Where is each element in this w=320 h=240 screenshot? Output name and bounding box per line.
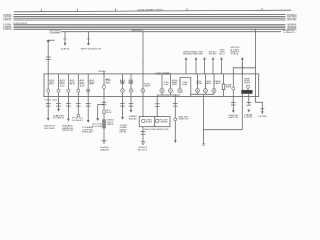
wire inside box to lamp L3 [179, 80, 181, 89]
wire pin 1 to box edge [47, 92, 49, 97]
junction dot pin 5 [87, 90, 89, 92]
wire inside box to pin 3 [67, 74, 69, 89]
svg-text:UNIT: UNIT [244, 83, 250, 85]
svg-text:RELAY: RELAY [120, 131, 128, 134]
wire col 48 below box [47, 97, 49, 119]
svg-text:CIRCUIT: CIRCUIT [107, 122, 114, 124]
svg-text:LIGHTS: LIGHTS [53, 118, 66, 120]
svg-text:SWITCH: SWITCH [178, 119, 189, 121]
right lamps common wire [191, 93, 214, 95]
arrow head col 97 [96, 118, 99, 121]
incoming arrow head A5 [220, 57, 223, 61]
bulb B1 symbol [121, 89, 125, 93]
arrow head col 262 [261, 111, 264, 114]
svg-text:VEHICLE SPEED SENSOR (VSS): VEHICLE SPEED SENSOR (VSS) [144, 129, 169, 131]
vss sensor circle 2 [156, 119, 159, 122]
wire inside box to pin 1 [47, 74, 49, 89]
inline connector on col 104 [102, 102, 107, 105]
svg-text:YEL/RED GRN: YEL/RED GRN [283, 30, 296, 32]
inline connector on col 157 [155, 104, 160, 107]
tick mark 1 on top rule [40, 9, 42, 11]
wire from arrow A6 down to gauge box [241, 61, 243, 74]
wire col 65 down [64, 32, 66, 43]
wire pin 5 to box edge [87, 92, 89, 97]
junction dot wire I / col 65 [64, 31, 65, 32]
lamp R2 symbol [204, 89, 208, 93]
inline connector C1 on col 48 [46, 57, 51, 60]
wire inside box to resistor R1 [223, 74, 225, 84]
wire col 143 from bus into gauge box [142, 32, 144, 74]
incoming arrow head A2 [195, 57, 198, 61]
wire resistor R2 to ground [103, 128, 105, 140]
pin 3 circle [67, 89, 70, 92]
bus wire F (group 2) [14, 25, 286, 27]
display module (dark) [241, 90, 252, 94]
inline connector on col 68 [66, 104, 71, 107]
arrow head col 68 [67, 119, 70, 122]
svg-text:BEAT: BEAT [243, 91, 252, 94]
wire inside box to gauge G1 [142, 74, 144, 89]
wire inside box to lamp R1 [197, 74, 199, 89]
wire col 190 inside box [190, 78, 192, 97]
wire from arrow A1 down to gauge box [185, 61, 187, 74]
inline connector on col 48 [46, 104, 51, 107]
wire from arrow A2 down to gauge box [195, 61, 197, 74]
resistor R2 body [103, 120, 106, 128]
wire drop col 157 in box [156, 95, 158, 97]
svg-text:SAFETY INDICATOR UNIT: SAFETY INDICATOR UNIT [81, 47, 103, 50]
tick mark 5 on top rule [261, 8, 263, 10]
wire col 248 to display [247, 88, 249, 90]
svg-text:DIMMING: DIMMING [107, 120, 115, 122]
wire col 233 from feed into box [232, 67, 234, 87]
wire from arrow A5 down to gauge box [221, 61, 223, 74]
svg-text:GAUGE ASSEMBLY: GAUGE ASSEMBLY [156, 71, 171, 75]
svg-text:SWITCH: SWITCH [228, 117, 239, 119]
svg-text:10 GRN/ORN: 10 GRN/ORN [3, 29, 12, 31]
wire inside box to bulb B2 [130, 74, 132, 89]
svg-text:LIGHT: LIGHT [72, 120, 83, 122]
wire lamp R2 bottom stub [205, 93, 207, 95]
junction dot col 190 common [190, 94, 191, 95]
arrow head col 88 [87, 43, 90, 46]
wire col 58 below box [58, 97, 60, 109]
junction dot rail [203, 129, 204, 130]
wire pin col 233 down [232, 90, 234, 97]
inline connector on col 233 [231, 102, 236, 105]
arrow head col 122 [121, 117, 124, 120]
lamp common wire [157, 94, 180, 96]
bus wire H (group 2) [14, 28, 286, 30]
wire inside box to lamp L2 [170, 74, 172, 88]
svg-text:ILL: ILL [106, 110, 111, 112]
svg-text:12: 12 [60, 85, 65, 87]
pin 5 circle [87, 89, 90, 92]
wire from arrow A3 down to gauge box [204, 61, 206, 74]
bulb col 104 [103, 111, 106, 114]
svg-text:18 WHT/RED: 18 WHT/RED [3, 18, 12, 20]
bus wire G (group 2) [14, 27, 286, 29]
pin circle col 248 [247, 85, 250, 88]
svg-text:WHT/RED: WHT/RED [287, 18, 298, 20]
wire pin6 below box [103, 97, 105, 105]
wire corner col 255 to 262 [256, 97, 263, 112]
svg-text:WHT: WHT [49, 82, 54, 84]
tick mark 3 on top rule [115, 9, 117, 11]
svg-text:ILLUM: ILLUM [92, 126, 103, 128]
incoming arrow head A4 [212, 57, 215, 61]
svg-text:WHT: WHT [89, 84, 94, 86]
junction dot wire I / col 88 [88, 31, 89, 32]
wire col 175 below box [174, 97, 176, 118]
junction dot wire I / col 143 [142, 31, 143, 32]
wire inside box to pin 6 [103, 72, 105, 85]
bulb B2 symbol [129, 89, 133, 93]
pin 4 circle [77, 89, 80, 92]
horizontal feed wire y67 [233, 67, 255, 69]
inline connector below vss box [141, 132, 146, 135]
svg-text:RES: RES [107, 124, 114, 126]
wire col 157 below box [156, 97, 158, 117]
svg-text:WHT: WHT [60, 84, 65, 86]
svg-text:C550 C551: C550 C551 [44, 100, 59, 102]
wire lamp L1 bottom stub [161, 93, 163, 95]
arrow head col 131 [130, 110, 133, 113]
svg-text:RELAY: RELAY [129, 117, 138, 120]
svg-text:SWITCH: SWITCH [62, 130, 74, 132]
wire col 104 down [103, 104, 105, 110]
single tick connector on col 88 [87, 38, 91, 40]
svg-text:BULB: BULB [106, 112, 111, 114]
wire drop col 175 in box [174, 95, 176, 97]
arrow head col 248 [247, 110, 250, 113]
svg-text:GAUGE ASSEMBLY (CONT’D): GAUGE ASSEMBLY (CONT’D) [138, 9, 164, 12]
svg-text:10: 10 [80, 85, 85, 87]
incoming arrow head A3 [203, 57, 206, 61]
tick mark 4 on top rule [186, 9, 188, 11]
vss box divider [154, 117, 156, 127]
svg-text:PRESS: PRESS [196, 83, 203, 85]
wire col 88 below box [87, 97, 89, 121]
inline connector on col 248 [246, 103, 251, 106]
wire pin 2 to box edge [58, 92, 60, 97]
wire col 48 down to gauge box [47, 44, 49, 74]
wire inside box to lamp R2 [205, 74, 207, 89]
junction dot wire H / col 254 [255, 29, 256, 30]
wire arrow A6 to display [241, 61, 243, 90]
vss sensor box outline [139, 117, 170, 127]
arrow head col 88 [87, 120, 90, 123]
tick mark 2 on top rule [76, 9, 78, 11]
bus wire B (group 1) [14, 15, 286, 17]
inline connector on col 122 [120, 104, 125, 107]
wire col 88 down [87, 32, 89, 43]
wire pin 4 to box edge [77, 92, 79, 97]
wire bulb B2 to box edge [130, 93, 132, 97]
svg-text:YEL: YEL [80, 82, 85, 84]
arrow head col 175 end [174, 140, 177, 143]
wire pin 3 to box edge [67, 92, 69, 97]
wire lamp R3 bottom stub [213, 93, 215, 95]
wire pin 6 to box edge [103, 88, 105, 96]
bus wire E (group 2) [14, 24, 286, 26]
svg-text:BLK/WHT RED: BLK/WHT RED [189, 54, 204, 56]
resistor R1 body [222, 84, 225, 90]
wire col 175 to arrow [174, 121, 176, 141]
ground G3 col 143 [141, 142, 146, 145]
svg-text:19 WHT/YEL: 19 WHT/YEL [3, 20, 12, 22]
terminal circle col 175 [174, 118, 177, 121]
junction dot on box edge col 131 [130, 96, 132, 98]
wire drop col 202 in box [203, 94, 205, 96]
svg-text:WHT RED: WHT RED [209, 54, 218, 56]
wire display column to rail [241, 94, 243, 130]
wire col 254 from bus down through box [255, 29, 257, 96]
terminal circle col 78 [77, 114, 80, 117]
svg-text:DIMMER: DIMMER [50, 33, 62, 35]
wire col 202 below box [203, 97, 205, 144]
wire col 143 below vss box [142, 127, 144, 142]
svg-text:WHT/YEL: WHT/YEL [287, 20, 297, 22]
ground bars col 202 [202, 144, 206, 146]
svg-text:VSS: VSS [146, 119, 152, 121]
wire display down col 248.8 [248, 94, 250, 105]
wire col 78 below box [77, 97, 79, 114]
bus wire A (group 1) [14, 14, 286, 16]
wire inside box to lamp R3 [213, 74, 215, 89]
inline connector on col 175 [173, 104, 178, 107]
bus wire C (group 1) [14, 17, 286, 19]
arrow head col 65 [64, 43, 67, 46]
svg-text:RELAY: RELAY [82, 131, 95, 134]
bus wire D (group 1) [14, 19, 286, 21]
gauge assembly box outline [44, 74, 259, 97]
wire gauge G1 down [142, 93, 144, 97]
wire resistor R1 down [223, 90, 225, 97]
svg-text:HORN: HORN [259, 116, 268, 118]
single tick on col 262 [260, 108, 264, 110]
wire bulb B1 to box edge [122, 93, 124, 97]
incoming arrow head A6 [241, 57, 244, 61]
splice dot on col 143 [142, 63, 143, 64]
vss sensor circle 1 [142, 119, 145, 122]
arrow head col 233 [232, 110, 235, 113]
wire col 104 bulb to resistor [103, 114, 105, 120]
stub wire col 104 into box [103, 71, 105, 74]
inline connector on col 88 [86, 104, 91, 107]
wire from arrow A4 down to gauge box [212, 61, 214, 74]
wire col 122 below box [122, 97, 124, 118]
pin circle col 233 [232, 87, 235, 90]
lamp R3 symbol [212, 89, 216, 93]
lamp L3 symbol [178, 89, 182, 93]
wire lamp R1 bottom stub [197, 93, 199, 95]
tee wire to col 97 [98, 103, 104, 105]
svg-text:YEL: YEL [230, 54, 239, 56]
pin 2 circle [57, 89, 60, 92]
svg-text:GAUGE: GAUGE [144, 85, 151, 88]
arrow head col 58 [57, 109, 60, 112]
wire lamp L2 bottom stub [170, 93, 172, 95]
inline connector on col 131 [129, 104, 134, 107]
wire inside box to pin 4 [77, 74, 79, 89]
wire inside box to lamp L1 [161, 74, 163, 88]
svg-text:17 WHT/GRN: 17 WHT/GRN [3, 16, 12, 18]
wire col 131 below box [130, 97, 132, 111]
wire col 97 down [97, 104, 99, 118]
pin 6 circle [103, 85, 106, 88]
incoming arrow head col 48 [46, 40, 54, 43]
ground rail wire [204, 129, 243, 131]
wire col 143 below box [142, 97, 144, 117]
svg-text:(DASH): (DASH) [100, 148, 110, 151]
pin 1 circle [47, 89, 50, 92]
top bus wire (page rule) [14, 10, 291, 12]
wire inside box to pin 5 [87, 74, 89, 89]
incoming arrow head A1 [185, 57, 188, 61]
wire inside box to pin 2 [58, 74, 60, 89]
inline connector on col 78 [76, 104, 81, 107]
svg-text:DEFOGGER: DEFOGGER [44, 128, 56, 130]
wire lamp L3 top corner to col 190 [180, 78, 191, 89]
wire col 233 below box [232, 97, 234, 111]
lamp R1 symbol [196, 89, 200, 93]
svg-text:WHT/BLU: WHT/BLU [287, 14, 297, 16]
bus wire I (lower) [61, 31, 281, 33]
inline connector on col 58 [56, 104, 61, 107]
wire inside box to bulb B1 [122, 74, 124, 89]
single tick connector on col 65 [63, 38, 67, 40]
svg-text:G401: G401 [61, 48, 70, 50]
svg-text:RED/BLU: RED/BLU [99, 71, 107, 73]
svg-text:WHT/GRN: WHT/GRN [287, 16, 297, 18]
svg-text:PULSE: PULSE [160, 119, 168, 121]
ground G2 col 104 [102, 140, 107, 143]
arrow head col 48 [47, 118, 50, 121]
lamp L2 symbol [168, 89, 172, 93]
wire col 68 below box [67, 97, 69, 119]
svg-text:16 WHT/BLU: 16 WHT/BLU [3, 14, 12, 16]
lamp L1 symbol [160, 89, 164, 93]
gauge G1 symbol [141, 89, 145, 93]
